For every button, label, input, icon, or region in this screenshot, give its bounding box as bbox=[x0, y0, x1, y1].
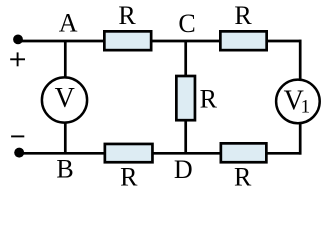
wire: middle branch through resistor R3 bbox=[184, 41, 187, 153]
svg-text:R: R bbox=[234, 162, 252, 189]
svg-text:R: R bbox=[118, 1, 136, 30]
resistor R3 (middle vertical) bbox=[176, 76, 195, 120]
svg-text:R: R bbox=[120, 162, 138, 189]
label - bbox=[11, 135, 24, 137]
wire: left branch through voltmeter V bbox=[64, 41, 67, 153]
wire: top horizontal A-C rail bbox=[18, 40, 302, 43]
resistor R4 (bottom left) bbox=[105, 144, 153, 162]
svg-text:A: A bbox=[59, 9, 78, 38]
svg-text:1: 1 bbox=[301, 97, 311, 118]
resistor R5 (bottom right) bbox=[221, 143, 267, 162]
voltmeter V (left) bbox=[42, 77, 87, 122]
svg-text:R: R bbox=[200, 85, 218, 114]
resistor R2 (top right) bbox=[220, 31, 266, 50]
svg-text:C: C bbox=[178, 9, 195, 38]
label + bbox=[10, 52, 25, 66]
resistor R1 (top left) bbox=[104, 31, 151, 50]
terminal dot + (node A side) bbox=[13, 35, 23, 45]
svg-text:V: V bbox=[55, 83, 75, 114]
svg-text:R: R bbox=[234, 1, 252, 30]
wire: bottom horizontal B-D rail bbox=[19, 152, 302, 155]
terminal dot - (node B side) bbox=[14, 148, 24, 158]
svg-text:D: D bbox=[174, 155, 193, 184]
svg-text:B: B bbox=[56, 155, 73, 184]
voltmeter V1 (right) bbox=[276, 80, 320, 124]
wire: right branch through voltmeter V1 bbox=[299, 40, 302, 155]
